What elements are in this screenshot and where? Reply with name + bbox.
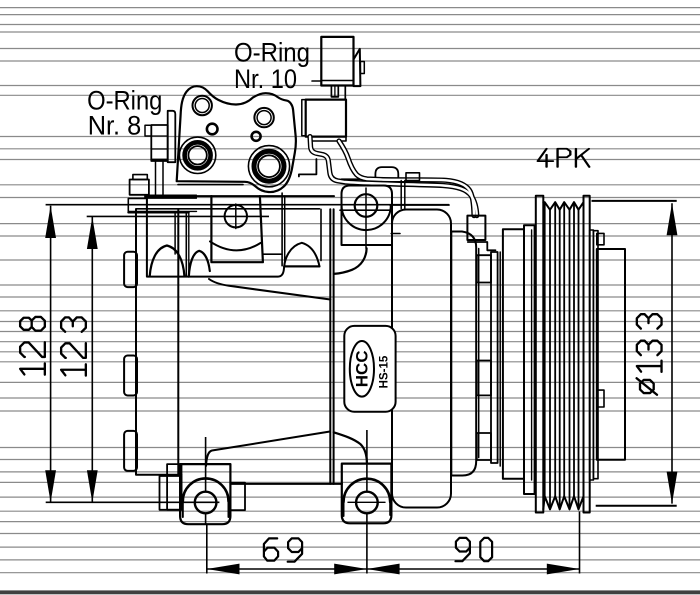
- svg-text:Nr. 10: Nr. 10: [234, 64, 297, 94]
- svg-text:O-Ring: O-Ring: [234, 37, 310, 67]
- svg-text:HS-15: HS-15: [379, 355, 391, 388]
- svg-text:HCC: HCC: [352, 350, 371, 387]
- svg-text:Nr. 8: Nr. 8: [88, 110, 142, 140]
